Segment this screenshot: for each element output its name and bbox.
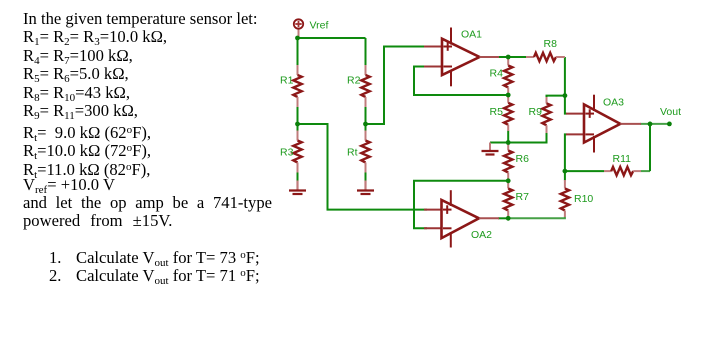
wire: R11 right to node J	[641, 170, 651, 172]
wire: node E down to R4	[507, 57, 509, 59]
svg-text:R6: R6	[516, 153, 530, 165]
wire: Vref node A to R2 top	[298, 37, 366, 39]
wire: R4 bottom to node D	[507, 93, 509, 95]
resistor R6	[504, 144, 512, 179]
wire: node K to R10 bottom	[508, 217, 565, 219]
ground under R3	[289, 181, 306, 195]
wire: node I to R10 top	[564, 171, 566, 180]
resistor R10	[561, 180, 569, 217]
junction node C	[363, 122, 368, 127]
resistor R2	[361, 65, 369, 107]
junction node E	[506, 55, 511, 60]
wire: R7 bottom to node K	[507, 217, 509, 219]
resistor R3	[293, 131, 301, 173]
wire: node A down to R1	[297, 38, 299, 66]
wire: R9 bottom to node G	[508, 133, 546, 143]
wire: node F to R9 top	[547, 96, 565, 104]
ground at R5-R6 node	[482, 143, 499, 155]
wire: node G to R6	[507, 143, 509, 145]
junction node B	[295, 122, 300, 127]
wire: OA1 output to node E	[498, 56, 508, 58]
junction node A	[295, 36, 300, 41]
junction node D	[506, 93, 511, 98]
resistor Rt	[361, 131, 369, 173]
svg-text:R7: R7	[516, 191, 530, 203]
wire: R8 right to node F	[564, 57, 566, 96]
resistor R11	[604, 167, 641, 175]
wire: OA1 minus feedback from node D	[414, 67, 508, 96]
wire: Rt bottom to ground	[365, 173, 367, 181]
junction node K	[506, 216, 511, 221]
svg-text:OA3: OA3	[603, 97, 624, 109]
svg-text:R8: R8	[544, 38, 558, 50]
resistor R4	[504, 59, 512, 94]
resistor R9	[542, 97, 550, 133]
svg-text:Rt: Rt	[347, 147, 358, 159]
wire: OA3 minus input down to node I	[565, 134, 567, 171]
junction node G	[506, 140, 511, 145]
junction node H	[506, 178, 511, 183]
wire: R2 bottom to node C	[365, 107, 367, 124]
wire: node B to OA2 plus input	[298, 124, 428, 210]
wire: node D to R5	[507, 95, 509, 97]
svg-text:Vref: Vref	[310, 20, 329, 32]
svg-text:R3: R3	[280, 147, 294, 159]
svg-text:R11: R11	[613, 153, 632, 165]
wire: node E to R8	[508, 56, 526, 58]
svg-text:OA1: OA1	[461, 29, 482, 41]
junction node F	[563, 93, 568, 98]
wire: node C down to Rt	[365, 124, 367, 131]
wire: R6 bottom to node H	[507, 179, 509, 181]
wire: node F down to OA3 plus input	[565, 96, 567, 114]
wire: node B down to R3	[297, 124, 299, 131]
wire: node J up from R11	[649, 124, 651, 171]
svg-text:R4: R4	[490, 68, 504, 80]
wire: R5 bottom to node G	[507, 131, 509, 143]
resistor R7	[504, 182, 512, 217]
resistor R8	[526, 53, 565, 61]
resistor R1	[293, 65, 301, 107]
op-amp OA1	[424, 28, 499, 87]
wire: node I to R11	[565, 170, 604, 172]
svg-text:OA2: OA2	[471, 229, 492, 241]
svg-text:R2: R2	[347, 75, 361, 87]
svg-text:R9: R9	[529, 106, 543, 118]
resistor R5	[504, 97, 512, 132]
wire: node G to ground stem	[490, 142, 508, 144]
junction node J	[648, 122, 653, 127]
wire: R2 top lead	[365, 38, 367, 66]
svg-text:R5: R5	[490, 106, 504, 118]
op-amp OA2	[424, 190, 499, 247]
wire: node H to OA2 minus feedback	[414, 181, 508, 229]
wire: OA2 output to node K	[498, 217, 508, 219]
wire: node C to OA1 plus input	[366, 47, 428, 125]
svg-text:R10: R10	[574, 193, 593, 205]
Vout terminal dot	[667, 122, 672, 127]
voltage source Vref	[294, 19, 303, 38]
wire: node H to R7	[507, 181, 509, 183]
wire: OA3 output to node J and Vout pin	[640, 123, 669, 125]
wire: R3 bottom to ground	[297, 173, 299, 181]
op-amp OA3	[566, 95, 641, 153]
svg-text:Vout: Vout	[660, 106, 681, 118]
ground under Rt	[357, 181, 374, 195]
wire: R1 bottom to node B	[297, 107, 299, 124]
junction node I	[563, 169, 568, 174]
svg-text:R1: R1	[280, 75, 294, 87]
